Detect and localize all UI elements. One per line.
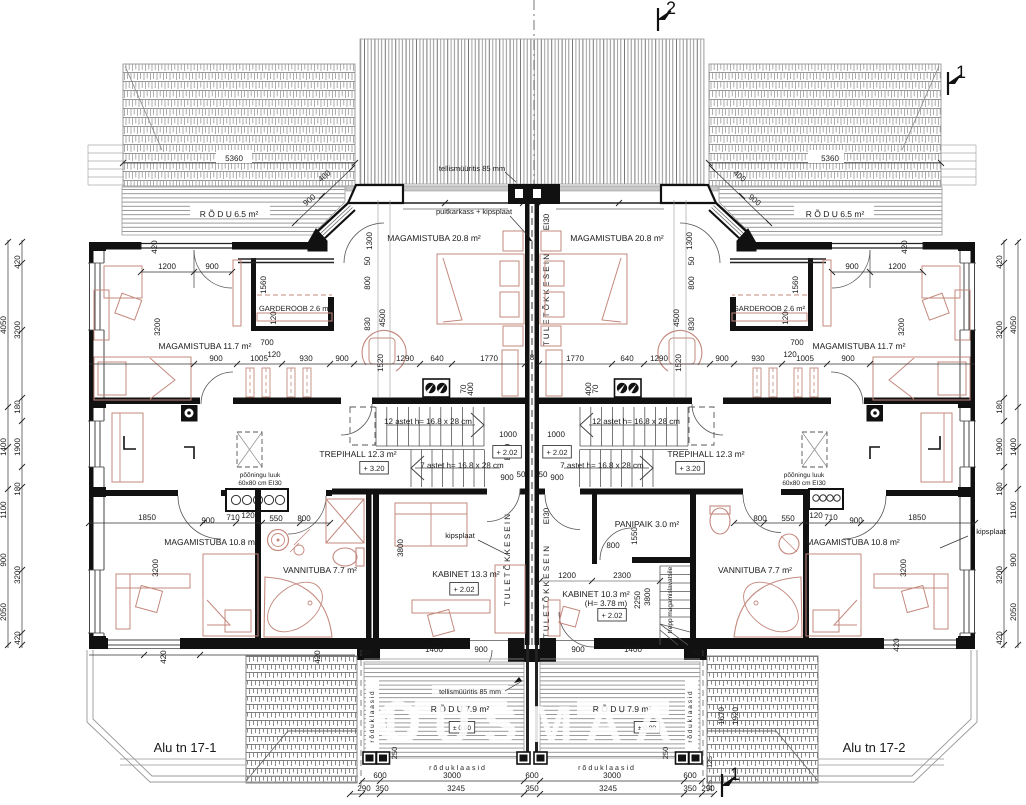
svg-text:700: 700 [260,338,274,347]
svg-text:2: 2 [666,0,676,18]
svg-text:1200: 1200 [558,571,576,580]
svg-text:2050: 2050 [1009,603,1018,621]
svg-text:3245: 3245 [599,784,617,793]
svg-text:120: 120 [783,350,797,359]
svg-text:1290: 1290 [650,354,668,363]
svg-text:900: 900 [474,645,488,654]
svg-text:420: 420 [13,631,22,645]
svg-text:420: 420 [995,255,1004,269]
svg-text:550: 550 [781,514,795,523]
svg-text:1100: 1100 [0,501,8,519]
svg-text:800: 800 [297,514,311,523]
svg-text:1200: 1200 [888,262,906,271]
svg-text:4500: 4500 [378,309,387,327]
svg-text:VANNITUBA 7.7 m²: VANNITUBA 7.7 m² [718,565,792,575]
svg-text:põõningu luuk: põõningu luuk [784,472,825,479]
svg-text:50: 50 [363,256,372,265]
svg-text:900: 900 [550,473,564,482]
svg-text:420: 420 [995,631,1004,645]
svg-text:710: 710 [824,513,838,522]
svg-text:900: 900 [209,354,223,363]
svg-text:Alu tn 17-1: Alu tn 17-1 [154,740,217,755]
svg-text:MAGAMISTUBA 20.8 m²: MAGAMISTUBA 20.8 m² [387,233,481,243]
svg-text:puitkarkass + kipsplaat: puitkarkass + kipsplaat [436,207,513,216]
svg-text:GARDEROOB 2.6 m²: GARDEROOB 2.6 m² [733,304,806,313]
svg-text:600: 600 [373,771,387,780]
svg-text:5360: 5360 [821,154,839,163]
svg-text:1400: 1400 [425,645,443,654]
svg-text:5360: 5360 [225,154,243,163]
svg-text:800: 800 [363,276,372,290]
svg-text:2300: 2300 [613,571,631,580]
svg-text:180: 180 [13,400,22,414]
svg-text:+ 2.02: + 2.02 [496,448,517,457]
svg-text:KABINET 13.3 m²: KABINET 13.3 m² [432,569,500,579]
svg-text:830: 830 [363,317,372,331]
svg-text:900: 900 [845,262,859,271]
svg-text:120: 120 [809,511,823,520]
svg-text:180: 180 [995,400,1004,414]
svg-text:(H= 3.78 m): (H= 3.78 m) [585,599,628,608]
svg-text:1670: 1670 [717,707,726,725]
svg-text:1770: 1770 [480,354,498,363]
svg-text:T U L E T Õ K K E S E I N: T U L E T Õ K K E S E I N [502,514,512,606]
svg-text:420: 420 [13,255,22,269]
svg-text:VANNITUBA 7.7 m²: VANNITUBA 7.7 m² [283,565,357,575]
svg-text:290: 290 [357,784,371,793]
svg-text:4050: 4050 [0,316,8,334]
svg-text:3000: 3000 [443,771,461,780]
svg-text:900: 900 [1009,553,1018,567]
svg-text:3200: 3200 [899,559,908,577]
svg-text:290: 290 [701,784,715,793]
svg-text:420: 420 [692,648,705,657]
svg-text:1770: 1770 [566,354,584,363]
svg-text:3200: 3200 [995,566,1004,584]
svg-text:120: 120 [241,511,255,520]
svg-text:420: 420 [360,648,373,657]
svg-text:420: 420 [900,240,909,254]
svg-text:420: 420 [159,650,168,664]
svg-text:MAGAMISTUBA 11.7 m²: MAGAMISTUBA 11.7 m² [159,341,252,351]
svg-text:MAGAMISTUBA 11.7 m²: MAGAMISTUBA 11.7 m² [813,341,906,351]
svg-text:+ 2.02: + 2.02 [453,585,474,594]
svg-text:T U L E T Õ K K E S E I N: T U L E T Õ K K E S E I N [541,254,551,346]
svg-text:600: 600 [525,771,539,780]
svg-text:120: 120 [267,350,281,359]
svg-text:1200: 1200 [158,262,176,271]
svg-text:1900: 1900 [13,438,22,456]
svg-text:1000: 1000 [547,430,565,439]
svg-text:+ 3.20: + 3.20 [363,464,384,473]
svg-text:R Õ D U 6.5 m²: R Õ D U 6.5 m² [806,209,865,219]
svg-text:930: 930 [299,354,313,363]
svg-text:rõduklaasid: rõduklaasid [578,764,636,772]
svg-text:1400: 1400 [1009,438,1018,456]
svg-text:7 astet h= 16.8 x 28 cm: 7 astet h= 16.8 x 28 cm [420,461,504,470]
svg-text:1560: 1560 [791,276,800,294]
svg-text:1: 1 [730,764,740,784]
svg-text:12 astet h= 16.8 x 28 cm: 12 astet h= 16.8 x 28 cm [384,417,472,426]
svg-text:1520: 1520 [376,354,385,372]
svg-text:+ 3.20: + 3.20 [679,464,700,473]
svg-text:1300: 1300 [365,232,374,250]
svg-text:800: 800 [606,541,620,550]
svg-text:900: 900 [0,553,8,567]
svg-text:50: 50 [517,470,526,479]
svg-text:T U L E T Õ K K E S E I N: T U L E T Õ K K E S E I N [541,546,551,638]
svg-text:12 astet h= 16.8 x 28 cm: 12 astet h= 16.8 x 28 cm [592,417,680,426]
svg-text:830: 830 [687,317,696,331]
svg-text:700: 700 [790,338,804,347]
svg-text:600: 600 [683,771,697,780]
svg-text:tellismüüritis 85 mm: tellismüüritis 85 mm [439,164,505,173]
svg-text:MAGAMISTUBA 20.8 m²: MAGAMISTUBA 20.8 m² [570,233,664,243]
svg-text:400: 400 [466,382,475,396]
svg-text:kipsplaat: kipsplaat [976,527,1007,536]
svg-text:400: 400 [584,382,593,396]
svg-text:r õ d u k l a a s i d: r õ d u k l a a s i d [369,691,376,743]
svg-text:800: 800 [687,276,696,290]
svg-text:1100: 1100 [1009,501,1018,519]
svg-text:EI30: EI30 [542,213,551,230]
svg-text:tellismüüritis 85 mm: tellismüüritis 85 mm [439,688,501,696]
svg-text:3800: 3800 [396,539,405,557]
svg-text:3200: 3200 [151,559,160,577]
svg-text:3800: 3800 [643,588,652,606]
svg-text:r õ d u k l a a s i d: r õ d u k l a a s i d [687,691,694,743]
svg-text:180: 180 [995,482,1004,496]
svg-text:900: 900 [201,516,215,525]
svg-text:280: 280 [525,353,539,362]
svg-text:550: 550 [269,514,283,523]
svg-text:1900: 1900 [995,438,1004,456]
svg-text:350: 350 [683,784,697,793]
svg-text:350: 350 [525,784,539,793]
svg-text:930: 930 [751,354,765,363]
svg-text:EI30: EI30 [542,507,551,524]
svg-text:+ 2.02: + 2.02 [546,448,567,457]
svg-text:350: 350 [375,784,389,793]
svg-text:3200: 3200 [153,318,162,336]
svg-text:125: 125 [707,756,714,768]
svg-text:PANIPAIK 3.0 m²: PANIPAIK 3.0 m² [615,519,680,529]
svg-text:710: 710 [226,513,240,522]
svg-text:900: 900 [715,354,729,363]
svg-text:420: 420 [313,650,322,664]
svg-text:180: 180 [13,482,22,496]
svg-text:900: 900 [500,473,514,482]
svg-text:60x80 cm EI30: 60x80 cm EI30 [238,480,282,487]
svg-text:1: 1 [956,62,966,82]
svg-text:1550: 1550 [630,527,639,545]
svg-text:640: 640 [430,354,444,363]
svg-text:3200: 3200 [13,566,22,584]
svg-text:1400: 1400 [624,645,642,654]
svg-text:+ 2.02: + 2.02 [601,611,622,620]
svg-text:3245: 3245 [447,784,465,793]
svg-text:900: 900 [205,262,219,271]
svg-text:TREPIHALL 12.3 m²: TREPIHALL 12.3 m² [319,449,396,459]
svg-text:2050: 2050 [0,603,8,621]
svg-text:3200: 3200 [13,321,22,339]
svg-text:900: 900 [335,354,349,363]
svg-text:1520: 1520 [674,354,683,372]
svg-text:900: 900 [849,516,863,525]
svg-text:1005: 1005 [250,354,268,363]
svg-text:1920: 1920 [731,707,740,725]
svg-text:trepp magamislavatsile: trepp magamislavatsile [667,566,674,633]
svg-text:2250: 2250 [633,591,642,609]
svg-text:50: 50 [539,470,548,479]
svg-text:1005: 1005 [796,354,814,363]
svg-text:TREPIHALL 12.3 m²: TREPIHALL 12.3 m² [667,449,744,459]
svg-text:MAGAMISTUBA 10.8 m²: MAGAMISTUBA 10.8 m² [806,537,900,547]
svg-text:7 astet h= 16.8 x 28 cm: 7 astet h= 16.8 x 28 cm [560,461,644,470]
svg-text:1560: 1560 [259,276,268,294]
svg-text:KABINET 10.3 m²: KABINET 10.3 m² [562,589,630,599]
svg-text:900: 900 [841,354,855,363]
svg-text:60x80 cm EI30: 60x80 cm EI30 [782,480,826,487]
svg-text:rõduklaasid: rõduklaasid [429,764,487,772]
svg-text:MAGAMISTUBA 10.8 m²: MAGAMISTUBA 10.8 m² [164,537,258,547]
svg-text:1850: 1850 [908,513,926,522]
svg-text:420: 420 [892,638,901,652]
svg-text:4050: 4050 [1009,316,1018,334]
svg-text:120: 120 [269,311,278,325]
svg-text:Alu tn 17-2: Alu tn 17-2 [843,740,906,755]
svg-text:800: 800 [753,514,767,523]
svg-text:120: 120 [781,311,790,325]
svg-text:UUSMAA: UUSMAA [384,696,684,754]
svg-text:3000: 3000 [603,771,621,780]
svg-text:1400: 1400 [0,438,8,456]
svg-text:3200: 3200 [995,321,1004,339]
svg-text:420: 420 [150,240,159,254]
svg-text:põõningu luuk: põõningu luuk [240,472,281,479]
svg-text:3200: 3200 [897,318,906,336]
svg-text:1300: 1300 [685,232,694,250]
svg-text:4500: 4500 [672,309,681,327]
svg-text:1850: 1850 [138,513,156,522]
svg-text:1000: 1000 [499,430,517,439]
svg-text:R Õ D U 6.5 m²: R Õ D U 6.5 m² [200,209,259,219]
svg-text:50: 50 [687,256,696,265]
svg-text:640: 640 [620,354,634,363]
svg-text:900: 900 [571,645,585,654]
svg-text:kipsplaat: kipsplaat [445,531,476,540]
svg-text:1290: 1290 [396,354,414,363]
